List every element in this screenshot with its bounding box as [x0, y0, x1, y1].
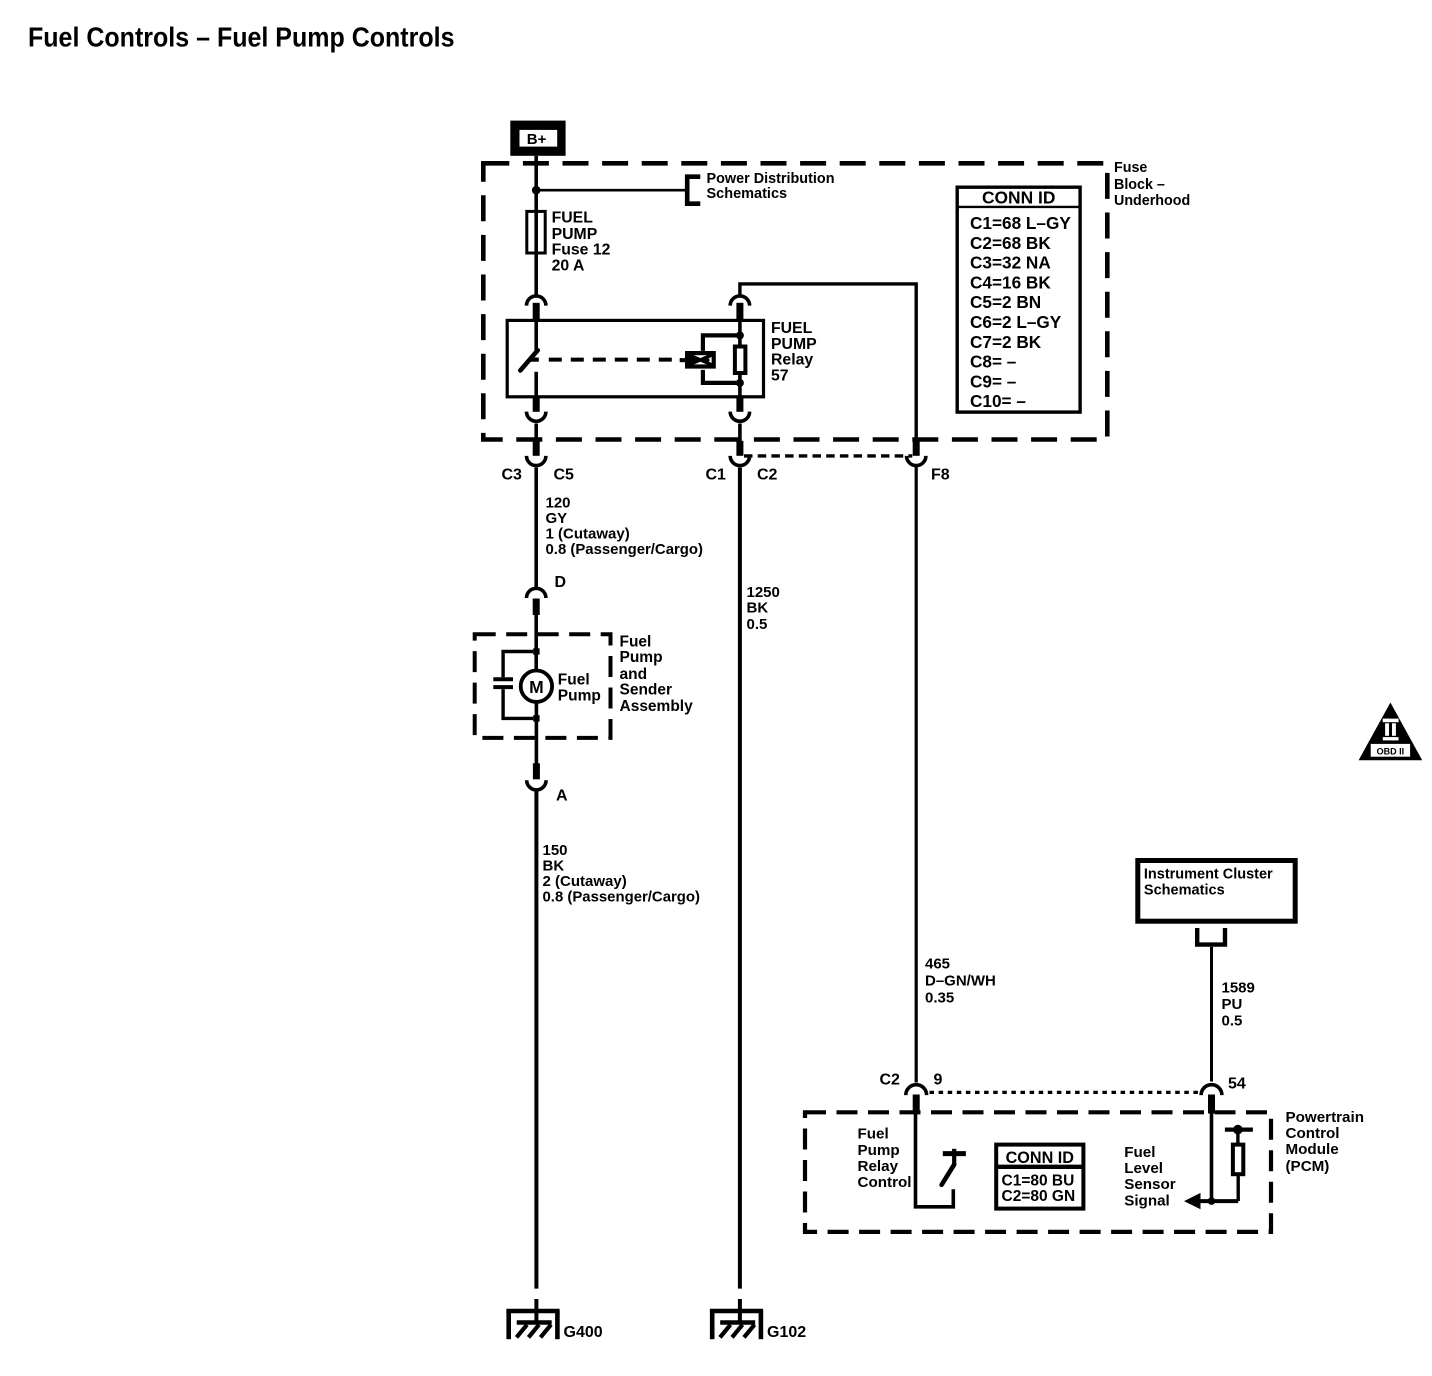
wire through fuse block boundary (coil): [738, 424, 742, 442]
relay switch output stub: [533, 397, 540, 412]
sensor pull-up rail: [1225, 1125, 1253, 1135]
svg-text:Fuel: Fuel: [558, 672, 590, 689]
svg-text:0.8 (Passenger/Cargo): 0.8 (Passenger/Cargo): [543, 889, 701, 906]
relay switch common wire: [534, 320, 538, 350]
fuse F12 label: [552, 210, 611, 275]
fuse block exit stub F8: [913, 441, 920, 456]
signal arrowhead: [1184, 1193, 1201, 1209]
fuse block underhood enclosure: [483, 163, 1107, 439]
instrument cluster box: [1138, 861, 1295, 922]
svg-text:Fuel: Fuel: [620, 634, 652, 651]
svg-text:Instrument Cluster: Instrument Cluster: [1144, 866, 1273, 882]
powertrain control module label: [1286, 1109, 1365, 1175]
svg-text:Power Distribution: Power Distribution: [707, 171, 835, 187]
wire C5 to fuel pump connector D: [534, 468, 538, 588]
relay 57 box: [507, 320, 763, 396]
svg-text:Fuel Controls – Fuel Pump Cont: Fuel Controls – Fuel Pump Controls: [28, 21, 455, 52]
wire label 1589 PU: [1222, 980, 1255, 1030]
wire label 1250 BK: [747, 584, 780, 633]
ground G400 symbol: [506, 1311, 559, 1339]
signal wire to arrow: [1196, 1199, 1238, 1203]
svg-text:150: 150: [543, 842, 568, 859]
pull-up lead: [1236, 1131, 1239, 1145]
motor return wire: [535, 702, 539, 764]
relay switch blade: [520, 350, 537, 370]
svg-text:Fuse: Fuse: [1114, 160, 1147, 176]
svg-text:0.5: 0.5: [747, 616, 768, 633]
ground lead G102: [738, 1299, 742, 1323]
relay switch output wire: [534, 372, 538, 397]
sensor input resistor: [1233, 1145, 1243, 1175]
svg-text:F8: F8: [931, 467, 950, 484]
fuse F12 FUEL PUMP 20A: [527, 211, 545, 253]
connector arc PCM pin 9: [906, 1085, 927, 1095]
svg-text:C8= –: C8= –: [970, 352, 1017, 372]
connector cup below relay (coil): [730, 412, 749, 422]
svg-text:PUMP: PUMP: [771, 336, 817, 353]
PCM enclosure: [805, 1112, 1271, 1232]
connector arc C5 terminal into relay: [527, 296, 546, 306]
wire F8 down to PCM pin 9: [915, 467, 918, 1083]
stub pin A: [533, 763, 540, 779]
relay coil output stub: [736, 397, 743, 412]
svg-text:C9= –: C9= –: [970, 371, 1017, 391]
junction square motor bottom: [533, 715, 539, 721]
svg-text:C1=68 L–GY: C1=68 L–GY: [970, 213, 1071, 233]
connector cup C1/C2: [730, 456, 749, 466]
fuel pump motor M: [521, 671, 552, 702]
svg-text:Sender: Sender: [620, 682, 673, 699]
wire D into assembly: [534, 614, 538, 671]
svg-text:Fuel: Fuel: [1124, 1144, 1155, 1161]
svg-text:C2: C2: [880, 1072, 901, 1089]
PCM pin 54 internal wire: [1210, 1112, 1214, 1201]
svg-text:Fuel: Fuel: [858, 1126, 889, 1143]
PCM driver switch: [942, 1149, 966, 1185]
svg-text:9: 9: [934, 1072, 943, 1089]
svg-text:2 (Cutaway): 2 (Cutaway): [543, 873, 627, 890]
connector cup C3/C5: [527, 456, 546, 466]
conn id table PCM: [996, 1145, 1083, 1209]
svg-text:C1=80 BU: C1=80 BU: [1002, 1172, 1075, 1189]
resistor lead down: [1236, 1174, 1239, 1201]
svg-text:Sensor: Sensor: [1124, 1176, 1176, 1193]
svg-text:C4=16 BK: C4=16 BK: [970, 272, 1051, 292]
relay solenoid X-box: [680, 353, 714, 366]
svg-text:FUEL: FUEL: [552, 210, 594, 227]
fuse block exit stub (coil): [736, 441, 743, 456]
suppression capacitor: [493, 652, 533, 719]
instrument cluster label: [1144, 866, 1273, 898]
svg-text:0.35: 0.35: [925, 990, 954, 1007]
svg-text:C7=2 BK: C7=2 BK: [970, 332, 1042, 352]
svg-text:D–GN/WH: D–GN/WH: [925, 973, 996, 990]
svg-text:Schematics: Schematics: [1144, 882, 1225, 898]
wire A to ground G400: [534, 792, 538, 1289]
svg-text:G400: G400: [564, 1324, 603, 1341]
wire label 150 BK: [543, 842, 701, 906]
svg-text:FUEL: FUEL: [771, 320, 813, 337]
instrument cluster tab: [1197, 928, 1225, 945]
svg-text:0.8 (Passenger/Cargo): 0.8 (Passenger/Cargo): [546, 541, 704, 558]
svg-text:120: 120: [546, 494, 571, 511]
svg-text:Block –: Block –: [1114, 177, 1165, 193]
svg-text:57: 57: [771, 368, 789, 385]
svg-text:1250: 1250: [747, 584, 780, 601]
svg-text:C2=80 GN: C2=80 GN: [1002, 1188, 1076, 1205]
wire label 465 D-GN/WH: [925, 956, 996, 1007]
svg-text:Relay: Relay: [858, 1158, 899, 1175]
svg-text:C5: C5: [554, 467, 575, 484]
fuel level sensor signal label: [1124, 1144, 1176, 1210]
assembly label: [620, 634, 694, 716]
svg-text:20 A: 20 A: [552, 257, 585, 274]
junction dot coil bottom: [736, 379, 744, 387]
svg-text:C3: C3: [502, 467, 523, 484]
power distribution bracket: [687, 177, 700, 204]
svg-text:C2: C2: [757, 467, 778, 484]
OBD II marker: [1359, 703, 1423, 761]
ground G102 symbol: [710, 1311, 763, 1339]
svg-text:BK: BK: [747, 600, 769, 617]
svg-text:Powertrain: Powertrain: [1286, 1109, 1365, 1126]
wire cluster to PCM pin 54: [1210, 947, 1213, 1082]
svg-text:C3=32 NA: C3=32 NA: [970, 253, 1051, 273]
relay 57 label: [771, 320, 817, 385]
svg-text:54: 54: [1228, 1075, 1246, 1092]
ground lead G400: [534, 1299, 538, 1323]
motor label Fuel Pump: [558, 672, 601, 705]
relay terminal stub (coil in): [736, 303, 743, 321]
fuse block underhood label: [1114, 160, 1190, 209]
relay terminal stub (switch in): [533, 303, 540, 321]
wire relay coil vertical: [738, 320, 742, 396]
junction signal wire: [1208, 1197, 1216, 1205]
svg-text:Pump: Pump: [858, 1142, 900, 1159]
svg-text:Schematics: Schematics: [707, 186, 788, 202]
svg-text:C5=2 BN: C5=2 BN: [970, 292, 1041, 312]
connector arc C1 terminal into relay: [730, 296, 749, 306]
wire relay coil to F8 drop: [740, 284, 916, 441]
svg-text:Pump: Pump: [620, 649, 663, 666]
svg-text:Control: Control: [1286, 1125, 1340, 1142]
svg-text:C6=2 L–GY: C6=2 L–GY: [970, 312, 1062, 332]
power distribution schematics label: [707, 171, 835, 202]
svg-text:1589: 1589: [1222, 980, 1255, 997]
wire through fuse block boundary (switch): [534, 424, 538, 442]
fuse block exit stub (switch): [533, 441, 540, 456]
battery feed B+: [510, 121, 565, 156]
svg-text:BK: BK: [543, 858, 565, 875]
svg-text:Signal: Signal: [1124, 1192, 1170, 1209]
svg-text:C1: C1: [706, 467, 727, 484]
relay switch contact tick: [530, 358, 539, 362]
svg-text:Underhood: Underhood: [1114, 193, 1190, 209]
stub pin D: [533, 599, 540, 616]
svg-text:Control: Control: [858, 1174, 912, 1191]
dashed link C2 to F8: [744, 454, 912, 457]
svg-text:PU: PU: [1222, 996, 1243, 1013]
svg-text:PUMP: PUMP: [552, 226, 598, 243]
svg-text:M: M: [529, 677, 544, 697]
conn id table fuse block: [957, 187, 1080, 412]
connector arc PCM pin 54: [1201, 1085, 1222, 1095]
svg-text:(PCM): (PCM): [1286, 1158, 1330, 1175]
svg-text:0.5: 0.5: [1222, 1012, 1243, 1029]
svg-text:G102: G102: [767, 1324, 806, 1341]
svg-text:B+: B+: [527, 131, 547, 148]
wire to power distribution reference: [536, 189, 687, 192]
svg-text:1 (Cutaway): 1 (Cutaway): [546, 525, 630, 542]
junction square motor top: [533, 648, 539, 654]
relay coil loop: [703, 335, 740, 383]
connector cup A: [527, 780, 546, 790]
stub PCM pin 54: [1208, 1095, 1215, 1114]
junction dot coil top: [736, 331, 744, 339]
wire C2 to ground G102: [738, 468, 742, 1289]
wire label 120 GY: [546, 494, 704, 558]
stub PCM pin 9: [913, 1095, 920, 1114]
svg-text:Fuse 12: Fuse 12: [552, 241, 611, 258]
connector cup F8: [907, 456, 926, 466]
dotted link pin 9 to pin 54: [930, 1091, 1200, 1094]
svg-text:D: D: [555, 574, 567, 591]
wire B+ down through fuse to relay pin: [534, 156, 538, 296]
svg-text:OBD II: OBD II: [1377, 747, 1405, 757]
fuel pump relay control label: [858, 1126, 912, 1192]
svg-text:C10= –: C10= –: [970, 391, 1026, 411]
svg-text:465: 465: [925, 956, 950, 973]
connector arc D: [527, 588, 546, 598]
svg-text:CONN ID: CONN ID: [1006, 1149, 1075, 1167]
svg-text:GY: GY: [546, 510, 568, 527]
svg-text:C2=68 BK: C2=68 BK: [970, 233, 1051, 253]
svg-text:and: and: [620, 666, 648, 683]
relay coil element: [735, 347, 746, 374]
svg-text:Relay: Relay: [771, 352, 813, 369]
svg-text:Module: Module: [1286, 1141, 1339, 1158]
svg-text:Assembly: Assembly: [620, 698, 694, 715]
svg-text:A: A: [556, 787, 568, 804]
fuel pump and sender assembly enclosure: [475, 634, 611, 738]
junction node at battery feed: [532, 186, 541, 195]
svg-text:Pump: Pump: [558, 688, 601, 705]
svg-text:Level: Level: [1124, 1160, 1163, 1177]
relay actuation dashed link: [549, 358, 680, 362]
connector cup below relay (switch): [527, 412, 546, 422]
svg-text:CONN ID: CONN ID: [982, 188, 1055, 208]
PCM driver input wire: [916, 1112, 954, 1207]
